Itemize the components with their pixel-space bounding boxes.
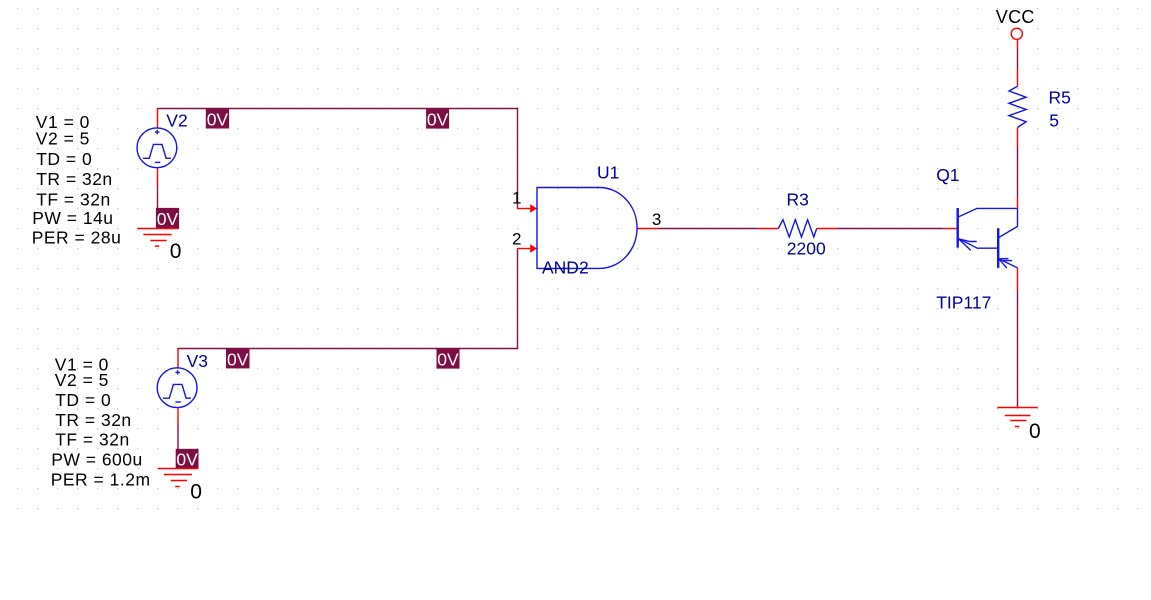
svg-text:0V: 0V [427,109,449,129]
pin Q1 base [944,228,958,230]
V2 parameter list [32,112,122,247]
pin V2 plus [157,108,159,128]
AND gate U1 body [537,188,637,269]
wire Q1 emitter down to ground [1017,292,1019,408]
svg-text:TIP117: TIP117 [936,292,991,312]
pin R5 top [1017,68,1019,87]
pin V3 plus [177,349,179,368]
svg-text:0V: 0V [437,349,459,369]
pin R5 bottom [1017,128,1019,148]
svg-text:2200: 2200 [787,239,826,259]
pin U1 output 3 [637,228,658,230]
pin U1 input 2 [517,248,531,250]
Q1 second emitter shaft [999,259,1018,268]
svg-text:PER = 28u: PER = 28u [32,227,122,247]
svg-text:PW = 14u: PW = 14u [32,208,113,228]
Q1 second emitter arrow [999,259,1012,269]
svg-text:R5: R5 [1049,88,1071,108]
pin V3 minus [177,408,179,424]
svg-text:V2 = 5: V2 = 5 [55,370,109,390]
voltage source V3 (VPULSE) [157,368,197,408]
svg-text:2: 2 [512,230,521,249]
svg-text:0V: 0V [207,109,229,129]
Q1 second base bar [997,228,999,268]
svg-text:TD = 0: TD = 0 [55,390,111,410]
V3 parameter list [51,354,151,489]
pin V2 minus [157,168,159,186]
svg-text:TR = 32n: TR = 32n [36,169,112,189]
pin Q1 collector [1017,197,1019,209]
resistor R3 zigzag [778,220,816,237]
svg-text:R3: R3 [787,189,809,209]
svg-text:V2 = 5: V2 = 5 [36,128,90,148]
svg-text:5: 5 [1049,110,1059,130]
wire V2 top horizontal to gate [157,48,1018,449]
svg-text:U1: U1 [597,162,619,182]
svg-text:0: 0 [1029,420,1041,443]
wire gate output to R3 [658,228,758,230]
pin R3 right [817,228,837,230]
pin U1 input 1 [517,208,531,210]
ground symbol 0 under V2 [137,229,177,247]
pin R3 left [758,228,779,230]
arrow into gate pin 1 [530,204,537,213]
svg-text:VCC: VCC [996,7,1035,27]
wire V3 top horizontal [177,348,518,350]
Q1 first collector [958,208,1018,217]
0V marker box V3 row mid [437,349,460,370]
wire V3 bottom to 0V marker [177,425,179,449]
svg-text:Q1: Q1 [936,165,959,185]
svg-text:TD = 0: TD = 0 [36,149,92,169]
svg-text:0: 0 [170,240,182,263]
0V marker box top-left [206,109,229,130]
transistor Q1 darlington PNP [958,208,1018,268]
Q1 first emitter arrow [959,239,977,251]
svg-text:0V: 0V [176,450,198,470]
VCC power symbol circle [1011,28,1022,39]
0V marker box V2 bottom [156,208,179,229]
svg-text:TR = 32n: TR = 32n [55,410,131,430]
wire R3 to Q1 base [837,228,944,230]
wire V2 bottom to 0V marker [157,186,159,209]
0V marker box V3 row left [226,349,250,370]
ground symbol 0 under V3 [158,469,198,487]
svg-text:PER = 1.2m: PER = 1.2m [51,469,151,489]
svg-text:0: 0 [190,481,202,504]
pin stubs (red) [158,39,1018,424]
svg-text:0V: 0V [227,349,249,369]
wire R5 bottom to Q1 collector [1017,148,1019,197]
ground symbol 0 under Q1 emitter [997,408,1037,427]
svg-text:TF = 32n: TF = 32n [36,189,111,209]
svg-text:AND2: AND2 [542,258,589,278]
voltage source V2 (VPULSE) [137,128,177,168]
wire vertical up to gate pin 2 [517,249,519,350]
arrow into gate pin 2 [530,244,537,253]
svg-text:1: 1 [512,188,521,207]
wire vertical down to gate pin 1 [517,108,519,209]
pin VCC symbol [1017,39,1019,48]
svg-text:PW = 600u: PW = 600u [51,449,143,469]
svg-text:V2: V2 [166,111,187,131]
wire VCC to R5 [1017,48,1019,68]
svg-text:3: 3 [652,210,661,229]
svg-text:V3: V3 [187,351,208,371]
svg-text:TF = 32n: TF = 32n [55,430,130,450]
Q1 first base bar [957,208,959,248]
Q1 first emitter shaft [958,238,998,248]
Q1 second collector [998,208,1017,238]
0V marker box top-mid [426,109,449,130]
resistor R5 zigzag [1009,86,1026,127]
pin Q1 emitter [1017,268,1019,292]
0V marker box V3 bottom [176,449,199,470]
svg-text:0V: 0V [157,209,179,229]
